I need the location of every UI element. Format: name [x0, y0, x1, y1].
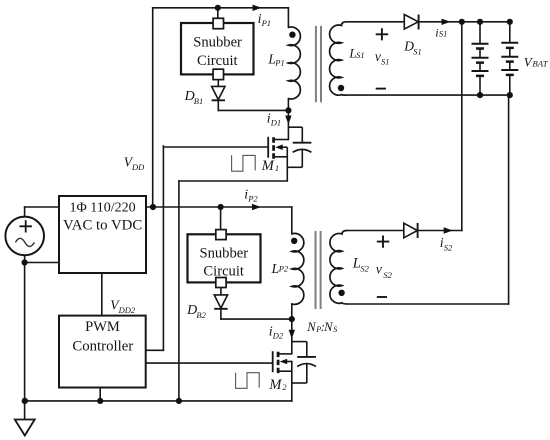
svg-text:S1: S1	[381, 56, 390, 66]
svg-text:M: M	[261, 158, 275, 174]
svg-text:M: M	[268, 377, 282, 393]
svg-text:S1: S1	[413, 46, 422, 56]
svg-text:S1: S1	[356, 50, 365, 60]
svg-text:S2: S2	[383, 270, 392, 280]
svg-text:N: N	[306, 320, 316, 334]
svg-text:DD: DD	[131, 162, 145, 172]
svg-text:S: S	[333, 325, 337, 334]
svg-text:1: 1	[275, 163, 279, 173]
svg-text:Snubber: Snubber	[193, 35, 242, 51]
svg-text:P1: P1	[274, 58, 284, 68]
svg-text:v: v	[376, 262, 382, 277]
svg-text:2: 2	[282, 382, 287, 392]
svg-text:VAC to VDC: VAC to VDC	[63, 218, 142, 234]
svg-text:B1: B1	[194, 96, 203, 106]
svg-text:Circuit: Circuit	[197, 53, 238, 69]
svg-text:P1: P1	[261, 18, 271, 28]
svg-text:P2: P2	[247, 193, 258, 203]
svg-text:D1: D1	[270, 117, 281, 127]
svg-text:B2: B2	[196, 310, 206, 320]
svg-text:Snubber: Snubber	[199, 246, 248, 262]
svg-text:S1: S1	[439, 29, 448, 39]
svg-text:1Φ 110/220: 1Φ 110/220	[70, 201, 136, 216]
svg-text:v: v	[375, 49, 381, 64]
svg-text:DD2: DD2	[118, 305, 136, 315]
svg-text:PWM: PWM	[85, 319, 120, 335]
svg-text:Controller: Controller	[72, 339, 133, 355]
svg-text:P2: P2	[278, 264, 289, 274]
svg-text:S2: S2	[444, 242, 453, 252]
svg-text:BAT: BAT	[532, 58, 548, 68]
svg-text:D2: D2	[272, 330, 284, 340]
svg-text:S2: S2	[360, 263, 369, 273]
svg-text:N: N	[323, 320, 333, 334]
svg-text:Circuit: Circuit	[203, 264, 244, 280]
